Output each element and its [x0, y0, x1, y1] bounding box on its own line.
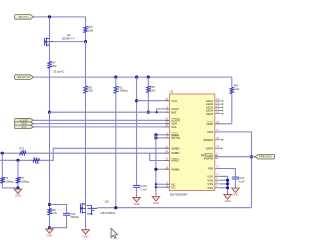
wire VSS bus [219, 176, 227, 193]
junction Q6 gate node [84, 40, 87, 43]
junction PRES [154, 133, 157, 136]
svg-text:221k: 221k [234, 87, 240, 91]
svg-text:SCL: SCL [171, 125, 177, 129]
svg-text:0.1uF: 0.1uF [140, 188, 147, 192]
pin PWRM [215, 157, 218, 159]
pin ADREN [215, 139, 223, 141]
svg-text:100k: 100k [88, 28, 94, 32]
port REGOUT [15, 75, 34, 80]
svg-text:SMBC: SMBC [171, 151, 180, 155]
capacitor C29 3300pF [63, 212, 70, 214]
pin LED2 [215, 103, 223, 105]
pin PRES [165, 134, 170, 136]
port ALERT [15, 119, 34, 123]
svg-text:BATT+: BATT+ [19, 15, 29, 19]
wire BAT node down to R48 [49, 112, 51, 208]
ground below R48 [46, 228, 54, 234]
wire Q9 gate line [97, 207, 251, 209]
svg-text:13.7k: 13.7k [51, 211, 58, 215]
wire R73 bottom [1, 183, 3, 188]
wire VEN [215, 132, 252, 208]
svg-text:3300pF: 3300pF [70, 215, 79, 219]
resistor R73 [1, 177, 4, 183]
pin BAT [165, 111, 170, 113]
svg-text:100: 100 [35, 161, 40, 165]
wire Q6 source [49, 17, 51, 38]
port SCL [15, 125, 34, 128]
wire NC1 tie [156, 183, 170, 185]
pin VSS [215, 175, 220, 177]
resistor R47 [48, 61, 51, 68]
wire PRECHG to port [215, 156, 255, 158]
junction R51 / gate line [114, 206, 117, 209]
wire SMBA [156, 168, 170, 170]
svg-text:1.00Meg: 1.00Meg [3, 179, 13, 183]
wire ALERT [34, 119, 170, 121]
svg-text:GND: GND [232, 193, 238, 197]
wire VCC pin [137, 100, 170, 102]
svg-text:VCC: VCC [171, 99, 178, 103]
mouse cursor [111, 228, 118, 238]
svg-text:GND: GND [225, 199, 231, 203]
wire C124 to gnd [136, 187, 138, 196]
wire bus corner to R57 [231, 77, 233, 87]
svg-text:PWRM: PWRM [204, 156, 214, 160]
wire BATT+ net [34, 16, 86, 18]
junction R55 / BAT line [147, 111, 150, 114]
transistor Q9 CSD17381F4 [80, 202, 97, 216]
pin LED4 [215, 110, 223, 112]
svg-text:100k: 100k [51, 64, 57, 68]
wire to R73 [1, 153, 3, 177]
svg-text:ADREN: ADREN [203, 138, 213, 142]
svg-text:VEN: VEN [207, 130, 213, 134]
svg-text:100k: 100k [87, 89, 93, 93]
wire SMBD net from edge with jog [0, 148, 170, 160]
wire RBI [215, 169, 236, 178]
junction R48 / C29 top [48, 203, 51, 206]
junction KEYIN [154, 136, 157, 139]
pin VSS [215, 179, 220, 181]
svg-text:GND: GND [47, 234, 53, 238]
svg-text:REGOUT: REGOUT [17, 75, 31, 79]
svg-text:U2: U2 [170, 90, 174, 94]
svg-text:PRECHG: PRECHG [259, 155, 272, 159]
ground below Q9 [82, 229, 90, 235]
svg-text:25 ppm/C: 25 ppm/C [53, 69, 64, 73]
pin SMBA [165, 168, 170, 170]
pin NC [165, 186, 170, 188]
wire R50 to Q9 drain [85, 93, 87, 202]
port SDA [15, 122, 34, 126]
svg-text:C124: C124 [140, 184, 147, 188]
wire BAT line [50, 111, 170, 113]
pin ALERT [165, 119, 170, 121]
svg-text:MRST: MRST [171, 159, 179, 163]
pin LED1 [215, 100, 223, 102]
transistor Q6 BSS84-7-F [45, 37, 54, 46]
resistor R48 [48, 208, 51, 215]
junction NC2 [155, 186, 157, 188]
svg-text:R75: R75 [33, 156, 38, 160]
wire PRES [156, 134, 170, 136]
pin VSS [215, 183, 220, 185]
junction REGOUT / R51 [114, 76, 117, 79]
pin MRST [165, 160, 170, 162]
pin KEYIN [165, 137, 170, 139]
wire R45 to gate node [85, 33, 87, 42]
junction VAUX / BAT line [156, 111, 158, 113]
wire KEYIN [156, 137, 170, 139]
resistor R55 [147, 86, 150, 93]
pin LED5 [215, 113, 223, 115]
wire Q6 gate [54, 41, 86, 43]
svg-text:BSS84-7-F: BSS84-7-F [62, 37, 75, 41]
pin SMBC [165, 152, 170, 154]
resistor R57 [230, 87, 233, 94]
junction VSS 3 [226, 182, 229, 185]
wire REGOUT bus [34, 76, 232, 78]
wire R57 to DISP [231, 94, 233, 124]
wire SMBC net from edge [0, 152, 170, 154]
svg-text:100k: 100k [150, 88, 156, 92]
junction BATT+ / Q6 source [48, 15, 51, 18]
pin SMBD [165, 147, 170, 149]
junction VSS 2 [226, 179, 229, 182]
wire DISP pin [215, 123, 232, 125]
capacitor C124 0.1uF [133, 184, 140, 186]
wire SMBC branch to MRST [150, 153, 170, 160]
pin SCL [165, 126, 170, 128]
svg-text:KEYIN: KEYIN [171, 136, 180, 140]
svg-text:100: 100 [21, 149, 26, 153]
pin LED3 [215, 106, 223, 108]
wire R51 down to gate line [115, 93, 117, 208]
junction VSS 4 [226, 186, 229, 189]
wire SCL [34, 126, 170, 128]
capacitor C125 0.1uF [232, 176, 239, 178]
wire to R45 [85, 17, 87, 26]
wire NC2 tie [156, 186, 170, 188]
svg-text:GND: GND [134, 202, 140, 206]
svg-text:BAT: BAT [171, 110, 177, 114]
pin NC [165, 183, 170, 185]
junction BAT divider [48, 111, 51, 114]
pin PRECHG [215, 154, 218, 156]
wire C29 bottom [50, 215, 67, 228]
resistor R72 [20, 152, 27, 155]
ground below VSS [224, 193, 232, 199]
resistor R76 [16, 177, 19, 183]
svg-text:SCL: SCL [21, 126, 27, 129]
svg-text:RBI: RBI [208, 167, 213, 171]
junction REGOUT / R55 [147, 76, 150, 79]
ground below C124 [133, 196, 141, 202]
resistor R50 [84, 86, 87, 93]
junction VCC branch [135, 99, 138, 102]
pin VEN [215, 131, 220, 133]
junction R76 / SMBD line [16, 159, 19, 162]
wire C125 to gnd [234, 179, 236, 187]
junction gnd rail [16, 186, 19, 189]
resistor R45 [84, 26, 87, 32]
junction VEN / PRECHG line [250, 155, 253, 158]
junction NC1 [155, 183, 157, 185]
port PRECHG [255, 154, 275, 159]
junction R48 / C29 bottom [48, 226, 51, 229]
svg-text:LED5: LED5 [206, 112, 214, 116]
wire R76 bottom [17, 183, 19, 188]
wire to R55 [147, 77, 149, 86]
ground below SMBA tie line [152, 195, 160, 201]
svg-text:1.00Meg: 1.00Meg [118, 89, 128, 93]
svg-text:1.00Meg: 1.00Meg [19, 179, 29, 183]
junction REGOUT / VCC drop [135, 76, 138, 79]
svg-text:VSS: VSS [207, 186, 213, 190]
svg-text:0.1uF: 0.1uF [238, 179, 245, 183]
svg-text:SMBA: SMBA [171, 167, 179, 171]
ground below R76 [14, 188, 22, 194]
svg-text:BQ78350DBT: BQ78350DBT [170, 192, 188, 196]
pin RBI [215, 168, 220, 170]
svg-text:Q9: Q9 [105, 199, 109, 203]
junction SMBA [154, 168, 157, 171]
resistor R75 [33, 159, 40, 162]
junction R73 / SMBC line [1, 152, 4, 155]
resistor R51 [114, 86, 117, 93]
IC U2 BQ78350DBT [170, 94, 215, 191]
pin VAUX [165, 108, 170, 110]
svg-text:DISP: DISP [206, 122, 213, 126]
wire C29 loop [50, 205, 67, 214]
svg-text:GND: GND [83, 234, 89, 238]
svg-text:GND: GND [15, 194, 21, 198]
wire REGOUT down to C124 [136, 77, 138, 185]
wire SDA [34, 123, 170, 125]
wire gnd rail R73-R76 [2, 187, 18, 189]
pin VCC [165, 100, 170, 102]
pin DISP [215, 123, 220, 125]
pin SDA [165, 123, 170, 125]
wire R48 bottom [49, 215, 51, 228]
svg-text:CSD17381F4: CSD17381F4 [100, 211, 116, 215]
wire R55 down to BAT line [147, 93, 149, 113]
wire Q9 source to gnd [85, 216, 87, 229]
svg-text:SMBD: SMBD [171, 146, 180, 150]
wire Q6 drain to R47 [49, 46, 51, 62]
svg-text:C125: C125 [238, 176, 245, 180]
svg-text:SAFE: SAFE [206, 146, 214, 150]
wire pulldown vertical [155, 135, 157, 196]
svg-text:GND: GND [153, 201, 159, 205]
pin VSS [215, 187, 220, 189]
port BATT+ [15, 15, 34, 20]
wire to R76 [17, 160, 19, 177]
ground below C125 [232, 187, 240, 193]
wire R47 to BAT line [49, 68, 51, 112]
pin SAFE [215, 147, 222, 149]
wire VAUX jog [157, 109, 170, 112]
wire gate node down to R50 [85, 42, 87, 86]
wire to R51 [115, 77, 117, 86]
